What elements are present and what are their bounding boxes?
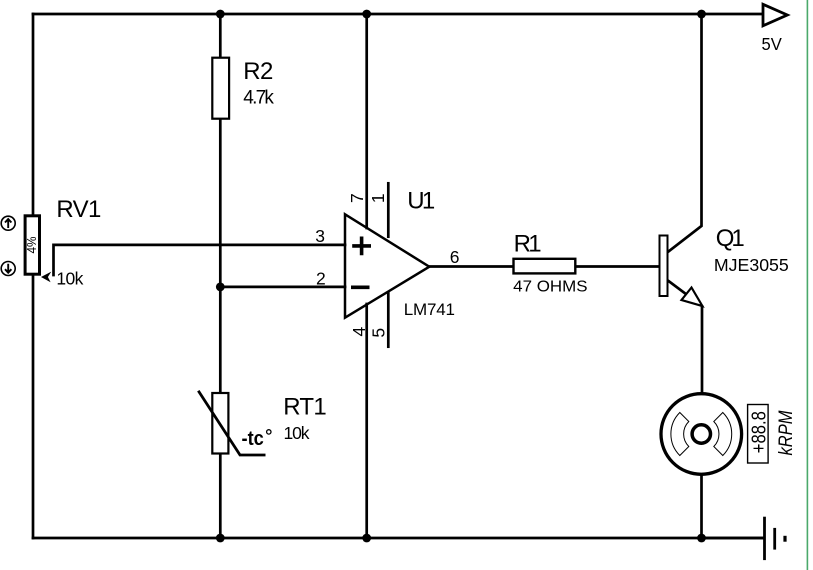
svg-text:Q1: Q1 xyxy=(716,225,745,252)
svg-text:U1: U1 xyxy=(407,188,435,215)
svg-text:5: 5 xyxy=(369,328,389,338)
svg-text:10k: 10k xyxy=(284,423,310,443)
svg-text:+88.8: +88.8 xyxy=(747,411,770,453)
svg-text:4: 4 xyxy=(349,327,369,337)
svg-text:-tc: -tc xyxy=(242,428,264,450)
svg-text:RT1: RT1 xyxy=(283,394,327,421)
svg-text:10k: 10k xyxy=(56,268,83,288)
svg-text:4%: 4% xyxy=(24,236,39,253)
svg-text:RV1: RV1 xyxy=(56,196,101,223)
svg-text:MJE3055: MJE3055 xyxy=(714,255,789,275)
svg-text:LM741: LM741 xyxy=(404,300,455,319)
svg-text:kRPM: kRPM xyxy=(775,410,797,456)
svg-text:R1: R1 xyxy=(514,230,542,257)
svg-text:1: 1 xyxy=(368,193,388,203)
svg-text:6: 6 xyxy=(450,247,460,267)
svg-text:5V: 5V xyxy=(762,34,783,54)
svg-text:47 OHMS: 47 OHMS xyxy=(513,278,587,295)
svg-text:3: 3 xyxy=(315,226,325,246)
svg-text:2: 2 xyxy=(316,269,326,289)
svg-text:4.7k: 4.7k xyxy=(243,87,274,108)
svg-text:7: 7 xyxy=(347,193,367,203)
svg-text:R2: R2 xyxy=(243,58,273,85)
